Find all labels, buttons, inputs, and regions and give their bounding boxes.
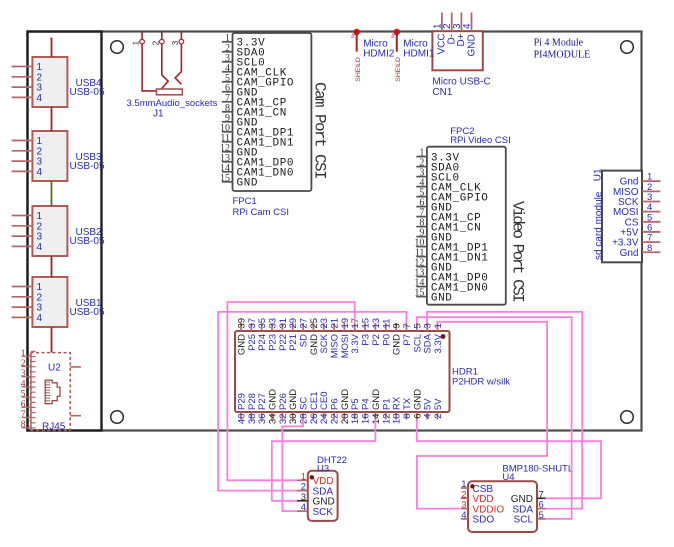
svg-text:GND: GND [340, 389, 351, 410]
svg-text:Pi 4 Module: Pi 4 Module [534, 38, 584, 49]
svg-text:33: 33 [268, 318, 279, 329]
svg-text:CE0: CE0 [319, 392, 330, 410]
svg-text:USB-05: USB-05 [70, 161, 105, 172]
svg-text:8: 8 [21, 420, 26, 430]
svg-text:P1: P1 [381, 398, 392, 410]
svg-text:27: 27 [299, 318, 310, 329]
svg-text:29: 29 [288, 318, 299, 329]
svg-text:Video Port CSI: Video Port CSI [509, 201, 527, 302]
svg-text:Micro USB-C: Micro USB-C [432, 77, 490, 88]
svg-text:SCL: SCL [514, 515, 534, 526]
svg-text:SCK: SCK [319, 333, 330, 353]
svg-text:GND: GND [371, 389, 382, 410]
svg-text:13: 13 [371, 318, 382, 329]
svg-text:MISO: MISO [330, 334, 341, 358]
svg-text:USB-05: USB-05 [70, 307, 105, 318]
svg-text:36: 36 [257, 414, 268, 425]
svg-text:PI4MODULE: PI4MODULE [534, 50, 591, 61]
svg-text:RPi Video CSI: RPi Video CSI [450, 135, 511, 146]
svg-text:№1: №1 [351, 30, 357, 38]
svg-text:1: 1 [21, 349, 26, 359]
svg-text:HDMI2: HDMI2 [363, 49, 395, 60]
svg-text:GND: GND [392, 334, 403, 355]
svg-text:2: 2 [150, 41, 160, 46]
svg-text:SHEILD: SHEILD [355, 57, 362, 82]
svg-text:P26: P26 [278, 393, 289, 410]
svg-text:5V: 5V [423, 398, 434, 410]
svg-text:P3: P3 [361, 334, 372, 346]
svg-text:sd card module: sd card module [594, 191, 605, 260]
svg-text:37: 37 [247, 318, 258, 329]
svg-text:RX: RX [392, 396, 403, 410]
svg-text:TX: TX [402, 397, 413, 410]
svg-text:30: 30 [288, 414, 299, 425]
svg-text:MOSI: MOSI [340, 334, 351, 358]
svg-text:12: 12 [381, 414, 392, 425]
svg-text:4: 4 [462, 23, 473, 29]
svg-text:P27: P27 [257, 393, 268, 410]
svg-text:3.5mmAudio_sockets: 3.5mmAudio_sockets [127, 98, 218, 109]
svg-text:3.3V: 3.3V [350, 333, 361, 353]
svg-text:4: 4 [301, 502, 306, 513]
svg-text:GND: GND [309, 334, 320, 355]
svg-text:SCK: SCK [313, 507, 334, 518]
svg-text:5: 5 [412, 323, 423, 328]
svg-text:18: 18 [350, 414, 361, 425]
svg-text:15: 15 [414, 288, 424, 299]
svg-text:P24: P24 [257, 334, 268, 351]
svg-text:24: 24 [319, 414, 330, 425]
svg-text:16: 16 [361, 414, 372, 425]
svg-text:5: 5 [539, 510, 544, 521]
svg-text:3: 3 [21, 369, 26, 379]
svg-text:1: 1 [433, 323, 444, 328]
svg-text:P23: P23 [268, 334, 279, 351]
svg-text:22: 22 [330, 414, 341, 425]
svg-text:25: 25 [309, 318, 320, 329]
svg-text:9: 9 [392, 323, 403, 328]
svg-text:USB-05: USB-05 [70, 236, 105, 247]
svg-text:U2: U2 [48, 363, 61, 374]
svg-text:31: 31 [278, 318, 289, 329]
svg-text:4: 4 [423, 414, 434, 419]
svg-text:40: 40 [237, 414, 248, 425]
svg-text:1: 1 [131, 41, 141, 46]
svg-text:6: 6 [412, 414, 423, 419]
svg-text:Cam Port CSI: Cam Port CSI [311, 82, 329, 179]
svg-text:8: 8 [647, 243, 652, 254]
svg-text:SCL: SCL [412, 334, 423, 352]
svg-text:RPi Cam CSI: RPi Cam CSI [233, 207, 289, 218]
svg-text:3: 3 [423, 323, 434, 328]
svg-text:8: 8 [402, 414, 413, 419]
svg-text:4: 4 [21, 379, 26, 389]
svg-text:GND: GND [237, 334, 248, 355]
svg-text:5: 5 [21, 390, 26, 400]
svg-text:3: 3 [170, 41, 180, 46]
svg-text:SC: SC [299, 397, 310, 410]
svg-text:39: 39 [237, 318, 248, 329]
svg-text:11: 11 [381, 319, 392, 329]
svg-text:15: 15 [361, 318, 372, 329]
svg-text:35: 35 [257, 318, 268, 329]
svg-text:J1: J1 [153, 109, 164, 120]
svg-text:7: 7 [21, 410, 26, 420]
svg-text:17: 17 [350, 318, 361, 329]
svg-text:26: 26 [309, 414, 320, 425]
svg-text:P6: P6 [330, 398, 341, 410]
svg-text:P7: P7 [402, 334, 413, 346]
svg-text:P21: P21 [288, 334, 299, 351]
svg-text:USB-05: USB-05 [70, 87, 105, 98]
svg-text:P2: P2 [371, 334, 382, 346]
svg-text:FPC1: FPC1 [233, 196, 257, 207]
svg-text:4: 4 [37, 313, 43, 324]
svg-text:CN1: CN1 [432, 87, 452, 98]
svg-text:Gnd: Gnd [620, 248, 639, 259]
svg-text:SD: SD [299, 334, 310, 347]
svg-text:P4: P4 [361, 398, 372, 410]
svg-text:19: 19 [340, 318, 351, 329]
svg-text:2: 2 [433, 414, 444, 419]
svg-text:SHEILD: SHEILD [395, 57, 402, 82]
svg-text:23: 23 [319, 318, 330, 329]
svg-text:6: 6 [21, 400, 26, 410]
svg-text:GND: GND [237, 178, 259, 190]
svg-text:20: 20 [340, 414, 351, 425]
svg-text:10: 10 [392, 414, 403, 425]
svg-text:GND: GND [431, 292, 453, 304]
svg-text:U3: U3 [317, 464, 329, 475]
svg-text:4: 4 [37, 167, 43, 178]
svg-text:2: 2 [21, 359, 26, 369]
svg-text:P29: P29 [237, 393, 248, 410]
svg-text:4: 4 [37, 93, 43, 104]
svg-text:SDO: SDO [473, 515, 495, 526]
svg-text:GND: GND [466, 34, 477, 56]
svg-text:P22: P22 [278, 334, 289, 351]
svg-text:34: 34 [268, 414, 279, 425]
svg-text:28: 28 [299, 414, 310, 425]
svg-text:4: 4 [37, 242, 43, 253]
svg-text:7: 7 [402, 323, 413, 328]
svg-text:21: 21 [330, 318, 341, 329]
svg-text:4: 4 [461, 510, 466, 521]
svg-text:№1: №1 [391, 30, 397, 38]
svg-text:38: 38 [247, 414, 258, 425]
svg-text:U1: U1 [593, 168, 604, 181]
svg-text:P5: P5 [350, 398, 361, 410]
svg-text:HDMI1: HDMI1 [403, 49, 435, 60]
svg-text:GND: GND [288, 389, 299, 410]
svg-text:P28: P28 [247, 393, 258, 410]
svg-text:CE1: CE1 [309, 392, 320, 410]
svg-text:15: 15 [220, 173, 230, 184]
svg-text:32: 32 [278, 414, 289, 425]
svg-text:SDA: SDA [423, 333, 434, 353]
svg-text:RJ45: RJ45 [42, 422, 66, 433]
svg-text:14: 14 [371, 414, 382, 425]
svg-text:GND: GND [268, 389, 279, 410]
svg-text:P2HDR w/silk: P2HDR w/silk [452, 377, 510, 388]
svg-text:GND: GND [412, 389, 423, 410]
svg-text:5V: 5V [433, 398, 444, 410]
svg-text:P0: P0 [381, 334, 392, 346]
svg-text:P25: P25 [247, 334, 258, 351]
svg-text:U4: U4 [502, 472, 514, 483]
